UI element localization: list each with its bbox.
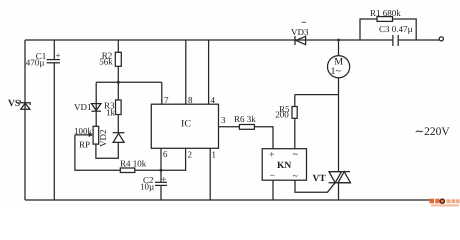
svg-text:VT: VT bbox=[313, 174, 327, 184]
svg-text:1: 1 bbox=[212, 150, 217, 160]
wire C1 branch bbox=[53, 40, 55, 200]
node junction dot bbox=[117, 81, 120, 84]
node dots bbox=[337, 39, 340, 42]
watermark bbox=[430, 199, 460, 207]
capacitor C1 bbox=[26, 51, 61, 68]
svg-text:VS: VS bbox=[8, 99, 20, 109]
svg-text:4: 4 bbox=[211, 95, 216, 105]
wire node rail y82 bbox=[96, 81, 162, 83]
wire bottom bus bbox=[25, 199, 432, 201]
svg-text:8: 8 bbox=[188, 95, 193, 105]
wire R2 branch bbox=[117, 40, 119, 82]
resistor R6 bbox=[234, 114, 256, 129]
svg-text:1~: 1~ bbox=[331, 66, 342, 77]
capacitor C3 bbox=[379, 24, 413, 46]
wire VD1 branch bbox=[95, 82, 97, 126]
svg-text:100k: 100k bbox=[74, 126, 93, 136]
resistor R3 bbox=[104, 100, 121, 118]
svg-text:1k: 1k bbox=[106, 108, 116, 118]
svg-text:KN: KN bbox=[277, 161, 291, 171]
wire pin7 bbox=[161, 82, 163, 104]
wire KN gate path bbox=[295, 180, 335, 192]
zener diode VS bbox=[8, 99, 30, 109]
svg-text:+: + bbox=[56, 51, 61, 61]
svg-text:+: + bbox=[161, 175, 167, 186]
wire wiper rail bbox=[75, 135, 120, 170]
wire R5 branch bbox=[295, 95, 339, 149]
svg-text:3: 3 bbox=[221, 115, 226, 125]
wire R6 to KN bbox=[254, 127, 273, 149]
svg-text:7: 7 bbox=[164, 95, 169, 105]
svg-text:R6 3k: R6 3k bbox=[234, 114, 256, 124]
svg-text:56k: 56k bbox=[99, 57, 113, 67]
capacitor C2 bbox=[140, 175, 167, 192]
svg-text:10µ: 10µ bbox=[140, 182, 154, 192]
svg-text:+: + bbox=[269, 150, 275, 161]
svg-text:−: − bbox=[270, 171, 276, 182]
svg-text:RP: RP bbox=[79, 140, 90, 150]
terminal bbox=[439, 37, 443, 41]
wire motor branch bbox=[338, 40, 340, 200]
diode VD2 bbox=[98, 130, 125, 148]
potentiometer RP bbox=[74, 126, 99, 150]
svg-text:VD2: VD2 bbox=[98, 130, 108, 148]
svg-text:470µ: 470µ bbox=[26, 57, 45, 67]
wire pin4 bbox=[208, 40, 210, 104]
motor M bbox=[328, 56, 350, 78]
diode VD1 bbox=[74, 102, 101, 112]
diode VD3 bbox=[291, 22, 309, 45]
triac VT bbox=[313, 172, 351, 184]
resistor R2 bbox=[99, 51, 121, 67]
svg-text:C3 0.47µ: C3 0.47µ bbox=[379, 24, 413, 34]
svg-text:R1 680k: R1 680k bbox=[370, 8, 401, 18]
svg-text:6: 6 bbox=[163, 149, 168, 159]
svg-text:VD3: VD3 bbox=[291, 27, 309, 37]
wire pin8 bbox=[185, 40, 187, 104]
pin labels top bbox=[164, 95, 216, 105]
pin labels bottom bbox=[163, 149, 216, 160]
wire R3 branch bbox=[117, 82, 119, 132]
svg-text:R4 10k: R4 10k bbox=[120, 159, 147, 169]
wire top bus bbox=[25, 39, 439, 41]
wire pin3 bbox=[219, 126, 240, 128]
rectifier bridge KN bbox=[262, 149, 306, 182]
wire RP bottom jog bbox=[96, 142, 118, 158]
svg-text:∼220V: ∼220V bbox=[415, 126, 451, 138]
svg-text:200: 200 bbox=[275, 110, 289, 120]
svg-text:VD1: VD1 bbox=[74, 102, 92, 112]
IC U1 box bbox=[151, 104, 218, 148]
wire C2 branch bbox=[160, 170, 162, 200]
resistor R5 bbox=[275, 104, 297, 120]
wire KN left to bus bbox=[272, 180, 274, 200]
wire rail to pin2 bbox=[135, 148, 186, 170]
node junction dot bbox=[160, 169, 163, 172]
resistor R4 bbox=[120, 159, 147, 173]
wire left branch bbox=[24, 40, 26, 200]
wire pin6 bbox=[160, 148, 162, 170]
svg-text:2: 2 bbox=[188, 150, 193, 160]
wire pin1 bbox=[209, 148, 211, 200]
svg-text:IC: IC bbox=[181, 119, 191, 130]
svg-text:~: ~ bbox=[293, 150, 299, 161]
resistor R1 bypass bbox=[360, 8, 416, 40]
